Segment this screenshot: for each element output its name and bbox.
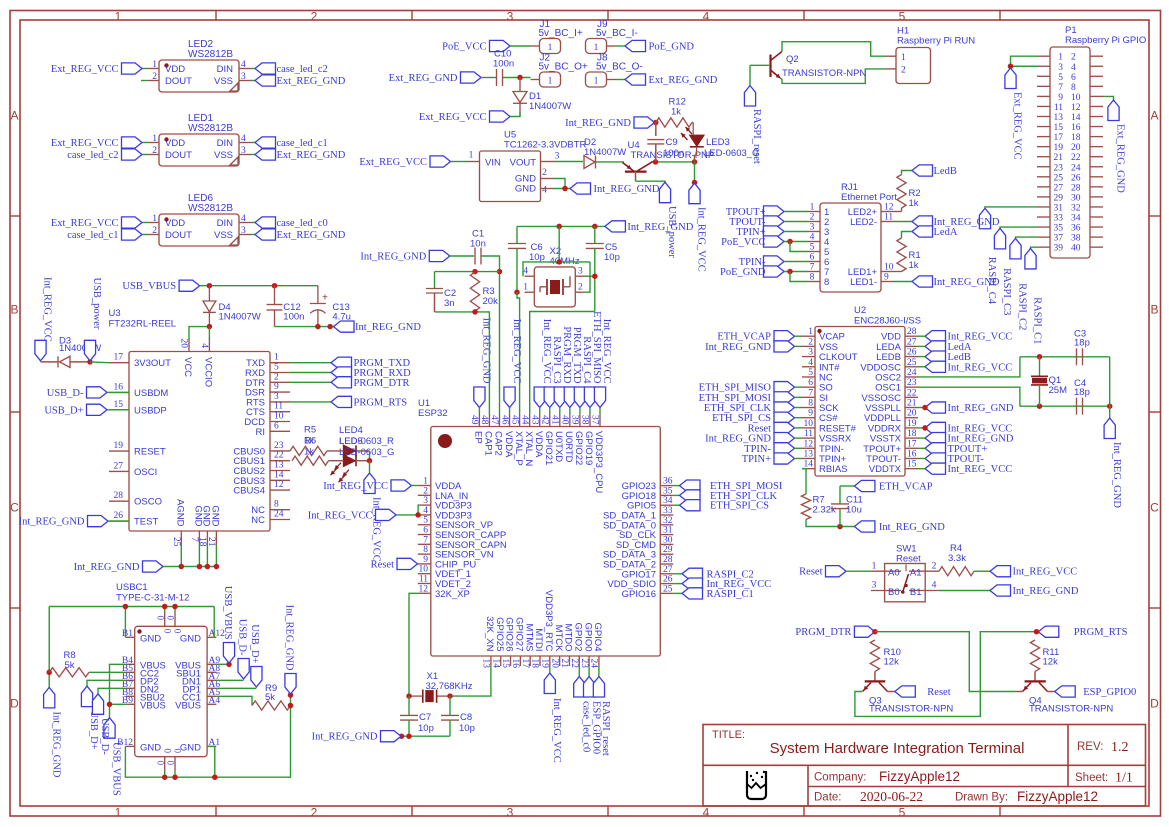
svg-text:1k: 1k	[909, 260, 919, 271]
svg-text:10: 10	[419, 565, 429, 575]
net flag Int_REG_VCC (U2 pin19)	[925, 422, 1012, 434]
net flag PRGM_RTS	[331, 396, 407, 408]
junctions USBC1 bottom rail	[162, 774, 218, 780]
svg-text:5: 5	[810, 243, 815, 253]
svg-text:GPIO2: GPIO2	[572, 622, 583, 651]
svg-text:41: 41	[550, 415, 560, 425]
wire P1 pin1/pin3 to Ext_REG_VCC	[1011, 56, 1038, 68]
svg-text:3: 3	[241, 72, 246, 82]
net flag Ext_REG_GND (vertical, P1)	[1108, 100, 1126, 193]
svg-text:40: 40	[560, 415, 570, 425]
svg-text:5: 5	[899, 10, 906, 24]
wire USBC1 VBUS left	[110, 664, 126, 717]
wire U1 pin23 flag	[588, 666, 590, 677]
svg-text:Int_REG_VCC: Int_REG_VCC	[323, 481, 388, 492]
svg-text:GND: GND	[180, 633, 201, 644]
svg-text:29: 29	[663, 545, 673, 555]
wire USB_D+ to pin15	[107, 409, 129, 411]
svg-text:Int_REG_GND: Int_REG_GND	[705, 342, 771, 353]
svg-text:0: 0	[173, 629, 183, 634]
svg-text:5v_BC_O-: 5v_BC_O-	[596, 62, 643, 73]
capacitor C9 100n	[647, 137, 684, 162]
junction C4 right	[1107, 403, 1113, 409]
wire USBC1 bottom rail	[125, 695, 290, 777]
svg-text:USB_D-: USB_D-	[47, 388, 84, 399]
svg-text:ETH_SPI_CS: ETH_SPI_CS	[710, 501, 769, 512]
svg-text:Int_REG_GND: Int_REG_GND	[627, 222, 693, 233]
svg-text:Int_REG_GND: Int_REG_GND	[74, 562, 140, 573]
wire U1 pin41 flag	[559, 408, 561, 415]
svg-text:LED-0603_G: LED-0603_G	[704, 148, 759, 159]
svg-text:DIN: DIN	[217, 138, 234, 149]
wire RJ1 pin3	[784, 231, 807, 233]
svg-text:0: 0	[163, 749, 173, 754]
svg-text:5k: 5k	[65, 660, 75, 671]
svg-text:REV:: REV:	[1077, 741, 1103, 753]
svg-text:LED-0603_G: LED-0603_G	[339, 447, 394, 458]
wire LedA to R1	[902, 232, 913, 239]
svg-text:1.2: 1.2	[1111, 740, 1129, 755]
svg-text:9: 9	[1058, 93, 1063, 103]
svg-text:Int_REG_VCC: Int_REG_VCC	[551, 698, 562, 763]
svg-text:38: 38	[1071, 234, 1081, 244]
wire R12 to LED3	[692, 122, 693, 124]
capacitor C6 10p	[508, 226, 545, 292]
wire USBC1 left gnd	[48, 607, 50, 688]
svg-text:6: 6	[808, 378, 813, 388]
wire D1 to Ext_REG_VCC	[510, 112, 520, 117]
svg-text:22: 22	[1071, 153, 1081, 163]
net flag Int_REG_VCC (U1 pin1)	[323, 480, 411, 492]
svg-text:RASPI_C3: RASPI_C3	[551, 336, 562, 383]
svg-text:Ext_REG_VCC: Ext_REG_VCC	[1012, 92, 1023, 160]
svg-text:1: 1	[274, 353, 279, 363]
wire LED1 pin2	[142, 154, 147, 156]
net flag TPIN- (RJ1)	[739, 256, 784, 268]
wire U1 pin39 flag	[579, 408, 581, 415]
svg-text:VDD: VDD	[165, 138, 185, 149]
wire U1 to RASPI_C2	[673, 573, 682, 575]
svg-text:RBIAS: RBIAS	[819, 464, 848, 475]
LED LED5 LED-0603_G	[329, 436, 395, 482]
svg-text:case_led_c2: case_led_c2	[277, 64, 328, 75]
wire U3 TXD to PRGM_TXD	[290, 362, 331, 364]
net flag LedA (RJ1)	[912, 226, 958, 238]
resistor R10 12k	[870, 640, 901, 671]
wire X2 pin4 loop	[523, 226, 590, 276]
svg-text:GPIO21: GPIO21	[543, 431, 554, 465]
svg-text:32K_XP: 32K_XP	[435, 589, 470, 600]
svg-text:A0: A0	[888, 568, 900, 579]
net flag Int_REG_GND (vertical, R9)	[283, 605, 296, 694]
net flag RASPI_C4 (vertical, U1 pin39)	[574, 336, 592, 407]
svg-text:10p: 10p	[604, 252, 620, 263]
junction LED common	[367, 458, 373, 464]
transistor Q2 TRANSISTOR-NPN	[771, 52, 867, 80]
junction C11 bottom	[837, 524, 843, 530]
svg-text:+: +	[322, 292, 328, 304]
wire C3/C4 right side	[1109, 357, 1111, 418]
svg-text:13: 13	[274, 461, 284, 471]
net flag LedB (U2 pin26)	[925, 351, 971, 363]
wire U3 RTS to PRGM_RTS	[290, 401, 331, 403]
svg-text:21: 21	[907, 399, 917, 409]
svg-text:30: 30	[663, 535, 673, 545]
svg-text:27: 27	[114, 461, 124, 471]
svg-text:A1: A1	[910, 568, 922, 579]
svg-text:7: 7	[808, 388, 813, 398]
svg-text:TEST: TEST	[134, 517, 158, 528]
svg-text:1: 1	[152, 134, 157, 144]
net flag PRGM_DTR	[331, 377, 410, 389]
wire Ext_REG_GND to C10	[481, 77, 496, 79]
net flag Ext_REG_GND	[255, 75, 346, 87]
svg-text:28: 28	[663, 555, 673, 565]
svg-text:MTCK: MTCK	[553, 625, 564, 653]
svg-text:34: 34	[663, 496, 673, 506]
svg-text:1: 1	[548, 43, 553, 53]
svg-text:2: 2	[311, 10, 318, 24]
svg-text:WS2812B: WS2812B	[188, 203, 233, 214]
wire C1 to pin47 column	[482, 256, 500, 414]
svg-text:TRANSISTOR-NPN: TRANSISTOR-NPN	[1029, 704, 1113, 715]
svg-text:TITLE:: TITLE:	[712, 729, 745, 741]
resistor R7 2.32k	[801, 494, 836, 520]
capacitor C2 3n	[426, 272, 456, 312]
capacitor C1 10n	[470, 229, 486, 265]
svg-text:XTAL_N: XTAL_N	[523, 431, 534, 466]
svg-text:Ext_REG_GND: Ext_REG_GND	[277, 230, 346, 241]
net flag LedB	[912, 165, 957, 177]
svg-text:VDD: VDD	[165, 64, 185, 75]
svg-text:37: 37	[1054, 234, 1064, 244]
crystal X2 40MHz	[523, 246, 584, 307]
svg-text:26: 26	[1071, 173, 1081, 183]
svg-text:1: 1	[423, 477, 428, 487]
svg-text:VSS: VSS	[214, 150, 233, 161]
svg-text:37: 37	[590, 415, 600, 425]
svg-text:Int_REG_VCC: Int_REG_VCC	[696, 207, 707, 272]
svg-text:5: 5	[423, 516, 428, 526]
svg-text:8: 8	[1071, 83, 1076, 93]
svg-text:OSCO: OSCO	[134, 497, 162, 508]
svg-text:47: 47	[489, 415, 499, 425]
svg-text:ETH_VCAP: ETH_VCAP	[879, 482, 933, 493]
IC U1 ESP32	[418, 398, 674, 668]
wire LED1 pin3	[251, 154, 255, 156]
svg-text:2020-06-22: 2020-06-22	[860, 789, 923, 804]
wire U1 pin38 flag	[589, 408, 591, 415]
svg-text:6: 6	[810, 253, 815, 263]
wire U2 pin2	[795, 345, 803, 347]
net flag Int_REG_GND (U3 TEST)	[19, 516, 108, 528]
diode D2 1N4007W	[584, 137, 626, 169]
connector J9 (5v_BC_I-)	[586, 19, 638, 54]
svg-text:4: 4	[1071, 63, 1076, 73]
junction PRGM_RTS	[1034, 629, 1040, 635]
svg-text:GPIO22: GPIO22	[573, 431, 584, 465]
svg-text:USBDP: USBDP	[134, 405, 167, 416]
svg-text:LED3: LED3	[706, 137, 730, 148]
svg-text:OSCI: OSCI	[134, 467, 157, 478]
svg-text:3: 3	[1058, 63, 1063, 73]
svg-text:TYPE-C-31-M-12: TYPE-C-31-M-12	[116, 593, 189, 604]
svg-text:16: 16	[907, 449, 917, 459]
junction D3/USB_power	[87, 359, 93, 365]
LED LED6 (WS2812B)	[147, 193, 251, 246]
svg-text:15: 15	[1054, 123, 1064, 133]
svg-text:1: 1	[594, 43, 599, 53]
svg-text:1: 1	[1058, 53, 1063, 63]
svg-text:10p: 10p	[418, 723, 434, 734]
svg-text:1k: 1k	[304, 447, 314, 458]
svg-text:GND: GND	[140, 633, 161, 644]
wire Q1 bottom rail	[1020, 405, 1110, 407]
net flag PRGM_RXD (vertical, U1 pin41)	[554, 326, 572, 407]
wire R3 top rail	[435, 271, 500, 273]
net flag USB_D+ (vertical, USBC1)	[81, 686, 99, 750]
net flag RASPI_C1 (U1 right)	[682, 588, 754, 600]
svg-text:U0TXD: U0TXD	[553, 431, 564, 462]
wire LED4/LED5 common	[369, 451, 371, 461]
svg-text:27: 27	[1054, 183, 1064, 193]
svg-text:U0RTD: U0RTD	[563, 431, 574, 463]
svg-text:C: C	[1150, 501, 1159, 515]
resistor R8 5k	[49, 650, 89, 677]
wire U1 pin12 to X1	[409, 593, 418, 696]
svg-text:48: 48	[479, 415, 489, 425]
svg-text:Ext_REG_VCC: Ext_REG_VCC	[51, 138, 119, 149]
svg-text:23: 23	[579, 659, 589, 669]
svg-text:12k: 12k	[1043, 657, 1059, 668]
net flag Int_REG_VCC (vertical, U1 VDDA46)	[504, 319, 522, 408]
capacitor C3 18p	[1074, 329, 1090, 366]
net flag Int_REG_VCC (vertical, D3)	[35, 277, 53, 361]
svg-text:Ext_REG_GND: Ext_REG_GND	[277, 76, 346, 87]
svg-text:LedB: LedB	[934, 166, 957, 177]
svg-text:13: 13	[1054, 113, 1064, 123]
svg-text:31: 31	[1054, 203, 1064, 213]
svg-text:Int_REG_GND: Int_REG_GND	[50, 712, 61, 778]
svg-text:1: 1	[901, 53, 906, 63]
net flag USB_D- (A7)	[216, 619, 249, 681]
svg-text:4: 4	[703, 10, 710, 24]
svg-text:CAP2: CAP2	[493, 431, 504, 456]
net flag Reset (U2 pin10)	[748, 422, 795, 434]
wire U2 pin17	[918, 447, 925, 449]
svg-text:9: 9	[423, 555, 428, 565]
wire U2 pin16	[918, 457, 925, 459]
wire RJ1 pin1	[784, 211, 807, 213]
wire P1 pin10 to Ext_REG_GND	[1103, 96, 1114, 100]
svg-text:USBDM: USBDM	[134, 388, 168, 399]
svg-text:0: 0	[163, 629, 173, 634]
svg-text:TPIN+: TPIN+	[742, 454, 771, 465]
svg-text:8: 8	[808, 399, 813, 409]
capacitor C10 100n	[493, 49, 514, 87]
svg-text:PoE_GND: PoE_GND	[720, 267, 766, 278]
svg-text:4: 4	[241, 214, 246, 224]
svg-text:RASPI_C2: RASPI_C2	[1017, 283, 1028, 330]
wire VDDA46 flag	[509, 408, 511, 415]
svg-text:ESP_GPIO0: ESP_GPIO0	[1083, 687, 1136, 698]
svg-text:DOUT: DOUT	[165, 76, 192, 87]
wire RJ1 pin11 to Int_REG_GND	[894, 221, 912, 223]
svg-text:4: 4	[241, 134, 246, 144]
svg-text:A: A	[10, 109, 18, 123]
svg-text:26: 26	[114, 511, 124, 521]
svg-text:8: 8	[274, 500, 279, 510]
svg-text:17: 17	[520, 659, 530, 669]
svg-text:4: 4	[199, 343, 209, 348]
wire RJ1 pin7	[784, 271, 807, 273]
wire U2 pin7	[795, 396, 803, 398]
title block	[703, 725, 1146, 807]
junction Int_REG_VCC branch	[692, 180, 698, 186]
svg-text:26: 26	[907, 348, 917, 358]
svg-text:PRGM_RTS: PRGM_RTS	[1074, 627, 1128, 638]
svg-text:Int_REG_GND: Int_REG_GND	[360, 252, 426, 263]
svg-text:USB_D+: USB_D+	[44, 405, 83, 416]
svg-text:FizzyApple12: FizzyApple12	[879, 769, 960, 784]
net flag case_led_c0	[255, 217, 328, 229]
svg-text:25: 25	[1054, 173, 1064, 183]
svg-text:Drawn By:: Drawn By:	[955, 792, 1008, 804]
svg-text:CAP1: CAP1	[483, 431, 494, 456]
connector J1 (5v_BC_I+)	[531, 19, 583, 54]
svg-text:LED1-: LED1-	[850, 277, 877, 288]
svg-text:Ext_REG_GND: Ext_REG_GND	[389, 73, 458, 84]
svg-text:24: 24	[274, 510, 284, 520]
net flag Int_REG_VCC (vertical, U1 pin43)	[534, 319, 552, 408]
wire LED common down	[369, 461, 371, 473]
svg-text:10: 10	[884, 263, 894, 273]
svg-text:Ext_REG_GND: Ext_REG_GND	[277, 150, 346, 161]
net flag Int_REG_VCC (U1 right)	[682, 578, 771, 590]
svg-text:ETH_SPI_MISO: ETH_SPI_MISO	[591, 311, 602, 384]
svg-text:LED2-: LED2-	[850, 217, 877, 228]
transistor U4 TRANSISTOR-PNP	[623, 140, 715, 181]
svg-text:Date:: Date:	[814, 792, 842, 804]
svg-text:1: 1	[594, 77, 599, 87]
wire LED1 pin1	[142, 142, 147, 144]
junctions USBC1 top rail	[123, 604, 178, 610]
svg-text:PoE_VCC: PoE_VCC	[442, 42, 486, 53]
svg-text:33: 33	[663, 506, 673, 516]
capacitor C7 10p	[400, 696, 434, 736]
net flag TPOUT- (RJ1)	[729, 216, 784, 228]
svg-text:27: 27	[907, 337, 917, 347]
svg-text:40: 40	[1071, 244, 1081, 254]
svg-text:18: 18	[1071, 133, 1081, 143]
svg-text:A: A	[1150, 109, 1158, 123]
svg-text:24: 24	[1071, 163, 1081, 173]
wire USB_VBUS rail	[200, 285, 318, 287]
svg-text:B1: B1	[910, 587, 922, 598]
wire U1 pin37 flag	[599, 408, 601, 415]
wire CC1 to R9	[216, 696, 252, 705]
svg-text:44: 44	[519, 415, 529, 425]
net flag Int_REG_GND (R7/C11)	[854, 521, 945, 533]
wire U5 GND pins	[553, 179, 570, 189]
net flag Int_REG_VCC (U2 pin28)	[925, 331, 1012, 343]
wire D2 to U4	[596, 161, 624, 163]
svg-text:17: 17	[114, 353, 124, 363]
svg-text:2: 2	[152, 226, 157, 236]
wire X2 gnd rail	[517, 225, 605, 227]
wire U2 pin19	[918, 427, 925, 429]
svg-text:45: 45	[509, 415, 519, 425]
svg-text:36: 36	[1071, 224, 1081, 234]
net flag RASPI_C3 (vertical)	[994, 228, 1005, 249]
wire OSC2 to crystal	[918, 357, 1020, 377]
wire RBIAS to R7	[802, 469, 806, 494]
wire U2 pin11	[795, 437, 803, 439]
svg-text:10u: 10u	[846, 505, 862, 516]
svg-text:USB_VBUS: USB_VBUS	[122, 281, 176, 292]
svg-text:case_led_c0: case_led_c0	[277, 218, 328, 229]
wire U3 RXD to PRGM_RXD	[290, 372, 331, 374]
wire X2 pin2 loop	[585, 262, 591, 292]
net flag Int_REG_GND (U2 pin18)	[925, 433, 1014, 445]
wire U3 ground rail	[163, 545, 216, 567]
net flag Ext_REG_GND (C10)	[389, 72, 481, 84]
svg-text:25: 25	[171, 537, 181, 547]
svg-text:35: 35	[1054, 224, 1064, 234]
wire P1 pin39 to RASPI_C1	[1031, 247, 1038, 249]
net flag ETH_SPI_MISO (U2 pin6)	[699, 382, 795, 394]
svg-text:8: 8	[423, 545, 428, 555]
svg-text:5v_BC_I+: 5v_BC_I+	[539, 28, 583, 39]
svg-text:C7: C7	[419, 712, 431, 723]
wire U1 pin22 flag	[578, 666, 580, 677]
svg-text:USB_power: USB_power	[91, 278, 102, 330]
svg-text:6: 6	[423, 526, 428, 536]
wire LED2 pin3	[251, 80, 255, 82]
junction PoE_GND pins7/8	[787, 269, 793, 275]
net flag Ext_REG_GND	[255, 149, 346, 161]
net flag Int_REG_VCC (U2 pin25)	[925, 361, 1012, 373]
connector RJ1 Ethernet Port	[807, 182, 897, 292]
svg-text:10: 10	[804, 419, 814, 429]
svg-text:NC: NC	[251, 515, 265, 526]
svg-text:34: 34	[1071, 214, 1081, 224]
svg-text:0: 0	[173, 749, 183, 754]
junction D4 top	[207, 283, 213, 289]
wire PRGM_RTS to Q3 collector	[855, 632, 1035, 717]
junction LED3 node	[692, 159, 698, 165]
svg-text:13: 13	[481, 659, 491, 669]
svg-text:2: 2	[152, 72, 157, 82]
svg-text:B: B	[10, 303, 18, 317]
svg-text:20: 20	[179, 339, 189, 349]
svg-text:GPIO0: GPIO0	[582, 622, 593, 651]
capacitor C13 4.7u (polarized)	[310, 286, 351, 327]
svg-text:USBC1: USBC1	[116, 582, 148, 593]
junction R3 top	[472, 269, 478, 275]
svg-text:ESP_GPIO0: ESP_GPIO0	[590, 701, 601, 754]
net flag PoE_VCC (RJ1)	[721, 236, 784, 248]
wire U2 pin10	[795, 427, 803, 429]
net flag RASPI_reset (vertical)	[744, 86, 762, 164]
svg-text:Int_REG_GND: Int_REG_GND	[594, 184, 660, 195]
wire LED6 pin2	[142, 234, 147, 236]
net flag TPIN- (U2 pin12)	[744, 443, 794, 455]
wire R2 to LedB	[902, 171, 913, 175]
net label RASPI_C1	[1032, 297, 1043, 344]
wire U1 pin43 flag	[539, 408, 541, 415]
wire U2 pin26	[918, 356, 925, 358]
